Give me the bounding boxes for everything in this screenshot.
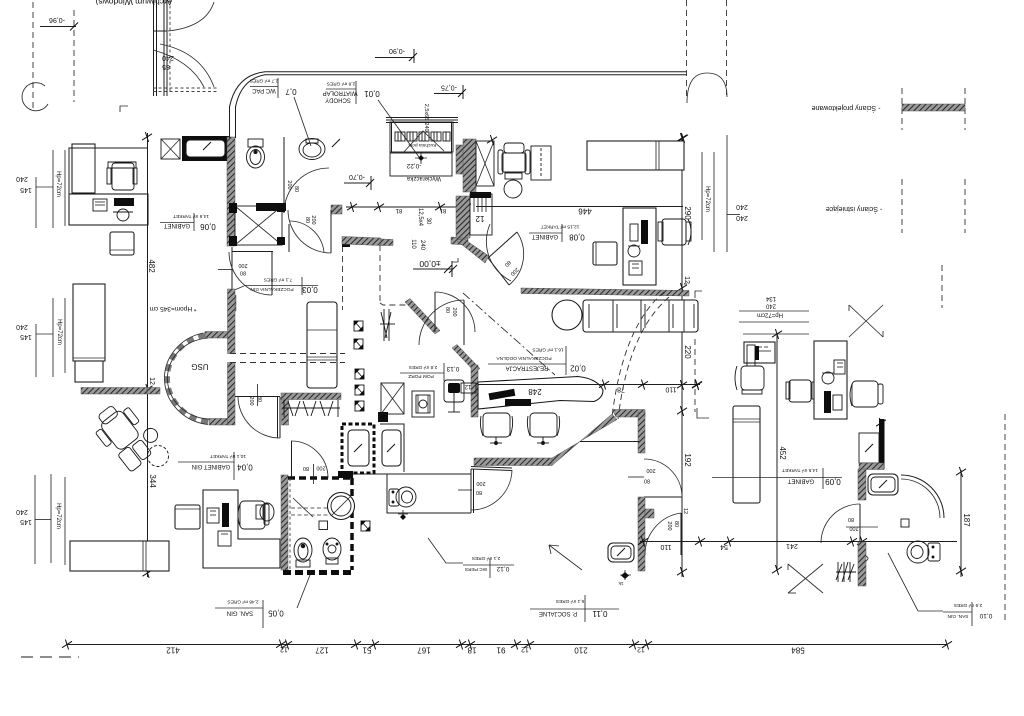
svg-text:81: 81 <box>395 207 402 213</box>
svg-text:240: 240 <box>736 203 748 210</box>
central hatched wall <box>342 237 381 246</box>
coat hooks <box>380 309 395 341</box>
svg-text:0,12: 0,12 <box>496 565 509 572</box>
dash-dot reference <box>463 293 555 375</box>
label 0.10 <box>943 611 972 613</box>
wall 0.03 left <box>231 247 233 295</box>
0.09 work zone rails <box>739 310 809 312</box>
stool 0.04 <box>175 505 200 529</box>
0.09 shower corner black wall <box>879 419 885 469</box>
desk 0.06 <box>69 148 148 225</box>
svg-text:GABINET: GABINET <box>531 233 558 239</box>
svg-text:12: 12 <box>521 646 529 653</box>
svg-text:240: 240 <box>419 240 425 251</box>
long hatched wall under 0.08 <box>521 288 689 296</box>
desk 0.09 <box>814 341 847 419</box>
bed vertical 0.04 room top <box>73 284 105 361</box>
dashed wall mark center-right <box>941 265 943 308</box>
svg-text:200: 200 <box>310 215 316 224</box>
hatch wall 0.11 left <box>638 497 645 571</box>
stool 0.06 <box>110 232 134 255</box>
svg-text:80: 80 <box>476 489 482 495</box>
svg-text:-0,70: -0,70 <box>349 173 365 180</box>
svg-text:* Hpom=345 cm: * Hpom=345 cm <box>150 305 197 312</box>
svg-text:145: 145 <box>20 186 32 193</box>
label 0.08 <box>529 232 562 234</box>
reception counter <box>478 377 603 410</box>
svg-text:200: 200 <box>451 307 457 316</box>
label 0.13 pom porz <box>400 372 444 374</box>
wc pac black linen box <box>161 139 180 159</box>
hatch wall right low <box>858 542 866 586</box>
bottom dim line <box>67 644 947 646</box>
svg-text:GABINET: GABINET <box>787 478 814 484</box>
+-0,00 <box>413 268 452 270</box>
hatch walls 0.10 <box>859 463 884 470</box>
svg-text:200: 200 <box>286 180 292 189</box>
svg-text:10,1 m² TARKET: 10,1 m² TARKET <box>210 453 246 459</box>
X brace <box>476 141 494 186</box>
svg-text:145: 145 <box>20 518 32 525</box>
wc pers room walls <box>387 474 471 513</box>
pom porz: X table <box>381 383 404 414</box>
stairs hatched wall notch <box>456 145 464 174</box>
svg-text:167: 167 <box>417 646 431 655</box>
Wycieraczka <box>390 153 452 176</box>
wheelchair + cabinet <box>498 143 551 180</box>
svg-text:WC PERS: WC PERS <box>465 566 487 572</box>
door 0.05 top <box>291 441 293 477</box>
-0,70 <box>344 182 371 184</box>
svg-text:30: 30 <box>425 218 431 225</box>
black wall seg 0.06 south <box>256 203 286 211</box>
svg-text:2,8 m² GRES: 2,8 m² GRES <box>409 364 438 370</box>
toilet 0.07 <box>247 139 265 168</box>
shower tray 0.05 <box>293 498 313 517</box>
bracket <box>120 106 128 112</box>
svg-text:91: 91 <box>496 646 505 655</box>
svg-text:Hp=72cm: Hp=72cm <box>56 319 62 345</box>
sink 0.10 <box>868 474 898 495</box>
svg-text:0,08: 0,08 <box>569 233 585 242</box>
dim line 81 12,5x4 <box>346 206 470 208</box>
thin connector line <box>580 441 639 443</box>
svg-text:584: 584 <box>791 646 805 655</box>
hatched wall 0.04 top <box>81 388 147 395</box>
svg-text:240: 240 <box>765 303 776 309</box>
svg-text:0,7: 0,7 <box>285 87 297 96</box>
label 0.01 schody wiatrolap <box>326 88 356 90</box>
washbasin 1 black dashed <box>342 424 374 473</box>
wall top 0.08 <box>476 206 683 208</box>
svg-text:Hp=72cm: Hp=72cm <box>704 186 710 212</box>
dim vertical 482 line <box>147 133 149 577</box>
couch 0.09 <box>733 406 760 503</box>
svg-text:110: 110 <box>665 386 676 393</box>
door small top-right of 0.03 <box>288 224 290 252</box>
svg-text:0,04: 0,04 <box>237 463 253 472</box>
door arc top <box>168 2 214 31</box>
stairs rect <box>470 194 492 235</box>
svg-text:85: 85 <box>162 63 170 70</box>
door 0.03 <box>271 252 273 295</box>
stairs top black bar <box>470 192 491 198</box>
svg-text:- Ściany projektowane: - Ściany projektowane <box>811 104 880 113</box>
left dim rails group1 <box>16 150 65 228</box>
svg-text:2: 2 <box>682 283 688 286</box>
sink 0.07 <box>299 139 325 160</box>
dim 187 <box>960 470 962 577</box>
exam bed top-left vertical <box>72 144 95 193</box>
leader arrow 0.11 <box>549 545 582 570</box>
door closing dashed <box>153 87 218 89</box>
dim -0,96 group: dashed vertical <box>32 2 34 108</box>
label 0.09 <box>712 477 842 479</box>
wall 0.03 top <box>232 251 273 253</box>
svg-text:12,15 m² TARKET: 12,15 m² TARKET <box>541 224 580 230</box>
chairs 0.09 <box>850 381 883 407</box>
shaft box with X <box>235 206 282 245</box>
svg-text:2,1 m² GRES: 2,1 m² GRES <box>472 555 501 561</box>
svg-text:12,5x4: 12,5x4 <box>417 208 423 227</box>
svg-text:18: 18 <box>467 646 476 655</box>
wall between <box>283 137 285 171</box>
svg-text:0,02: 0,02 <box>570 364 586 373</box>
svg-text:127: 127 <box>315 646 329 655</box>
svg-text:12: 12 <box>637 646 645 653</box>
svg-text:POM PORZ: POM PORZ <box>408 373 434 379</box>
door 0.07 <box>283 168 285 213</box>
svg-text:2,8 m² GRES: 2,8 m² GRES <box>327 81 356 87</box>
label 0.03 <box>244 285 318 287</box>
svg-text:SCHODY: SCHODY <box>325 97 351 103</box>
svg-text:Kuchnia pow.: Kuchnia pow. <box>408 142 437 148</box>
diagonal hatched wall <box>552 414 617 466</box>
svg-text:80: 80 <box>444 307 450 313</box>
svg-text:GABINET: GABINET <box>163 222 190 228</box>
USG bottom stub wall <box>209 419 229 426</box>
legend projektowane <box>901 88 903 130</box>
svg-text:240: 240 <box>16 323 28 330</box>
printer desk <box>744 342 775 363</box>
door 0.06 to hall <box>330 210 332 253</box>
svg-text:241: 241 <box>786 542 798 549</box>
svg-text:WIATROŁAP: WIATROŁAP <box>323 90 358 96</box>
svg-text:±0,00: ±0,00 <box>419 259 440 269</box>
svg-text:12: 12 <box>475 214 484 223</box>
chair 0.04 <box>238 501 269 529</box>
svg-text:USG: USG <box>191 362 208 371</box>
svg-text:200: 200 <box>849 525 858 531</box>
door arc double lower <box>160 44 214 87</box>
entry wall left double <box>153 0 155 96</box>
toilet 0.10 <box>907 541 940 563</box>
dental chair <box>88 393 167 474</box>
svg-text:200: 200 <box>316 465 325 471</box>
svg-text:80: 80 <box>240 270 246 276</box>
svg-text:-0,96: -0,96 <box>49 16 65 23</box>
dim line y541 <box>640 541 957 543</box>
cart <box>444 380 464 412</box>
sink 0.11 <box>608 543 634 562</box>
door N (0.11 top) <box>644 496 682 498</box>
svg-text:WC PAC: WC PAC <box>252 87 276 93</box>
svg-text:80: 80 <box>644 478 650 484</box>
computer 0.06 <box>114 198 134 206</box>
door diagonal at stairs <box>488 232 517 258</box>
toilet 0.12 <box>389 487 416 507</box>
washer <box>412 391 434 417</box>
svg-text:290: 290 <box>683 206 692 220</box>
svg-text:200: 200 <box>646 467 655 473</box>
diagonal hatched wall A1 <box>405 299 440 335</box>
-0,22 marker <box>415 152 427 164</box>
reception south hatched wall <box>474 458 552 466</box>
svg-text:12: 12 <box>682 508 688 514</box>
label 0.12 <box>463 564 514 566</box>
svg-text:14,9 m² TARKET: 14,9 m² TARKET <box>173 213 209 219</box>
svg-text:240: 240 <box>16 175 28 182</box>
dim -0,90 <box>375 57 414 59</box>
12 small box <box>461 383 476 393</box>
svg-text:0,10: 0,10 <box>979 612 992 619</box>
USG top stub wall <box>205 332 229 339</box>
bench circle table <box>552 300 582 330</box>
svg-text:210: 210 <box>574 646 588 655</box>
svg-text:P. SOCJALNE: P. SOCJALNE <box>539 610 577 616</box>
hatch below 0.03 left wall <box>228 295 236 311</box>
left dim rails group2 <box>16 298 65 377</box>
dashed partition <box>379 245 381 303</box>
bench row <box>583 300 698 332</box>
svg-text:145: 145 <box>20 333 32 340</box>
svg-text:110: 110 <box>410 239 416 249</box>
vertical line x682 <box>681 134 683 577</box>
svg-text:0,03: 0,03 <box>302 285 318 294</box>
hatched diagonal wall stairs <box>456 239 489 263</box>
svg-text:80: 80 <box>848 516 854 522</box>
chair 0.08 <box>658 219 691 245</box>
svg-text:POCZEKALNIA GIN: POCZEKALNIA GIN <box>250 286 294 292</box>
svg-text:2,48 m² GRES: 2,48 m² GRES <box>227 599 258 605</box>
door 0.08 lower-left <box>486 224 511 281</box>
corridor wall top double with corner <box>230 72 688 107</box>
svg-text:6,1 m² GRES: 6,1 m² GRES <box>556 598 585 604</box>
svg-text:Hp=72cm: Hp=72cm <box>55 171 61 197</box>
dashed vertical right <box>73 10 75 102</box>
label 0.7 WC PAC <box>250 86 278 88</box>
hatch seg right <box>451 237 468 245</box>
corridor corner connector walls <box>229 106 231 138</box>
svg-text:80: 80 <box>303 465 309 471</box>
USG glass arc <box>167 335 211 422</box>
label 0.02 <box>488 363 566 365</box>
svg-text:16,1 m² GRES: 16,1 m² GRES <box>532 347 563 353</box>
bath tub black border <box>182 136 229 161</box>
legend istniejace <box>901 179 903 233</box>
bed 0.08 <box>587 141 684 170</box>
svg-text:GABINET GIN: GABINET GIN <box>192 463 231 469</box>
svg-text:452: 452 <box>778 446 787 460</box>
label 0.11 <box>530 608 619 610</box>
svg-text:Hp=72cm: Hp=72cm <box>55 503 61 529</box>
stairs hatched wall left low <box>456 196 470 238</box>
svg-text:134: 134 <box>765 295 776 301</box>
coat rack diagonals <box>283 400 340 417</box>
svg-text:0,01: 0,01 <box>364 89 380 98</box>
radiator <box>836 562 856 582</box>
fan B <box>434 292 436 332</box>
dashed wall pair under sofa <box>230 353 345 355</box>
svg-text:12: 12 <box>148 377 155 385</box>
svg-text:0,05: 0,05 <box>268 609 284 618</box>
svg-text:-0,75: -0,75 <box>441 84 457 91</box>
circle mark C <box>22 83 48 111</box>
svg-text:7,1 m² GRES: 7,1 m² GRES <box>264 277 293 283</box>
exam bed 0.04 bottom <box>70 541 169 571</box>
svg-text:2,9 m² GRES: 2,9 m² GRES <box>954 602 983 608</box>
svg-text:78: 78 <box>617 386 625 393</box>
svg-text:12: 12 <box>464 383 471 389</box>
chair 0.06 <box>107 162 137 190</box>
toilets 0.05 <box>294 538 312 567</box>
X mark bottom <box>788 564 823 593</box>
svg-text:Archiwum Windows): Archiwum Windows) <box>95 0 172 7</box>
svg-text:- Ściany istniejące: - Ściany istniejące <box>826 205 883 214</box>
dim line -0,96 <box>40 26 76 28</box>
svg-text:81: 81 <box>439 207 446 213</box>
svg-text:200: 200 <box>476 480 485 486</box>
svg-text:240: 240 <box>736 214 748 221</box>
stairs hatched wall bar <box>463 139 476 192</box>
vertical hatch wall <box>638 412 645 453</box>
svg-text:0,13: 0,13 <box>446 365 459 372</box>
svg-text:80: 80 <box>673 521 679 527</box>
hatched wall vertical bath <box>227 137 235 246</box>
svg-text:344: 344 <box>148 474 157 488</box>
dashed wall below kitchen <box>342 246 344 310</box>
label 0.05 <box>215 607 263 609</box>
svg-text:2,5x65: 2,5x65 <box>423 104 429 121</box>
door frame line 0.04 top <box>235 396 280 398</box>
desk 0.08 <box>623 208 656 285</box>
svg-text:54: 54 <box>720 543 728 550</box>
corridor arch door <box>687 73 727 103</box>
svg-text:248: 248 <box>528 387 542 396</box>
svg-text:0,11: 0,11 <box>592 609 608 618</box>
toilet small left <box>256 503 274 521</box>
svg-text:-0,90: -0,90 <box>389 47 405 54</box>
svg-text:80: 80 <box>293 186 299 192</box>
vertical hatch reception west <box>471 365 478 417</box>
svg-text:0,06: 0,06 <box>200 222 216 231</box>
stool 0.08 <box>593 242 617 265</box>
dim 452 vertical <box>776 335 778 570</box>
svg-text:Hp=72cm: Hp=72cm <box>757 312 783 318</box>
dim -0,75 <box>434 93 463 95</box>
label 0.04 <box>178 461 234 463</box>
svg-text:14,5 m² TARKET: 14,5 m² TARKET <box>782 467 818 473</box>
svg-text:SAN. GIN: SAN. GIN <box>227 610 253 616</box>
room 0.05 walls <box>281 475 288 570</box>
0.05 inner dashed wall left <box>289 478 291 571</box>
fan C <box>463 300 465 345</box>
svg-text:240: 240 <box>423 122 429 131</box>
svg-text:POCZEKALNIA OGÓLNA: POCZEKALNIA OGÓLNA <box>496 355 552 362</box>
svg-text:SAN. GIN: SAN. GIN <box>947 613 969 619</box>
dashed glass arc <box>612 292 664 417</box>
chair 2 right <box>786 380 816 402</box>
checker squares column <box>354 321 370 531</box>
right rails 0.08 <box>701 152 703 240</box>
svg-text:482: 482 <box>147 259 156 273</box>
svg-text:1k: 1k <box>618 580 624 586</box>
svg-text:240: 240 <box>16 508 28 515</box>
chair printer <box>735 366 764 394</box>
svg-text:220: 220 <box>683 345 692 359</box>
washbasin 2 <box>380 424 404 472</box>
dashed stub bottom-left <box>21 656 79 658</box>
0.04 L desk <box>203 490 280 568</box>
kitchen unit <box>386 117 458 119</box>
dashed wall right edge <box>1004 414 1006 622</box>
svg-text:Wycieraczka: Wycieraczka <box>406 175 441 181</box>
svg-text:200: 200 <box>248 396 254 405</box>
label 0.06 gabinet <box>160 222 194 224</box>
reception chairs <box>480 413 559 445</box>
svg-text:-0,22: -0,22 <box>406 162 421 169</box>
svg-text:12: 12 <box>280 646 288 653</box>
door P 0.09 <box>859 504 861 543</box>
svg-text:80: 80 <box>304 217 310 223</box>
svg-text:240: 240 <box>162 54 174 61</box>
shower arc 0.10 <box>901 475 944 518</box>
svg-text:187: 187 <box>962 513 971 527</box>
sofa 0.03 <box>307 302 337 388</box>
svg-text:51: 51 <box>362 646 371 655</box>
X table top right <box>849 305 883 337</box>
svg-text:446: 446 <box>578 207 592 216</box>
left dim rails group3 <box>16 474 65 565</box>
dim line y384 <box>478 384 700 386</box>
svg-text:110: 110 <box>660 543 671 550</box>
dashed dim line 220 <box>694 339 696 412</box>
svg-text:200: 200 <box>238 262 247 268</box>
svg-text:REJESTRACJA: REJESTRACJA <box>506 365 549 371</box>
vertical hatch wall upper 0.04 <box>228 289 236 354</box>
hatch block <box>331 205 342 214</box>
diagonal hatched wall A2 <box>452 345 480 373</box>
door O <box>680 513 682 555</box>
svg-text:0,09: 0,09 <box>825 477 841 486</box>
wardrobe hatch wall <box>281 393 341 400</box>
door at wardrobe left <box>279 397 281 438</box>
svg-text:200: 200 <box>666 521 672 530</box>
svg-text:412: 412 <box>166 646 180 655</box>
svg-text:2,7 m² GRES: 2,7 m² GRES <box>250 78 279 84</box>
svg-text:192: 192 <box>683 453 692 467</box>
door M (WC PERS out) <box>471 469 512 471</box>
